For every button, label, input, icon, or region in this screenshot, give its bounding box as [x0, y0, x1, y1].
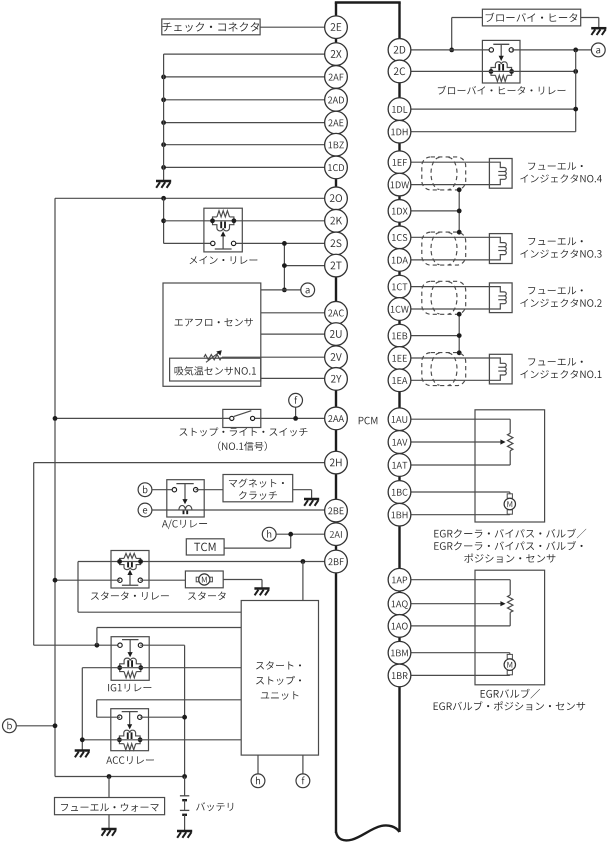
PCM pin 2AE: [325, 111, 348, 134]
wire pin 2H to IG1 bus: [34, 462, 336, 464]
node f (circled, unit): [296, 774, 310, 788]
PCM pin 2T: [325, 254, 348, 277]
ground G4 (starter): [254, 589, 269, 596]
junction 2BF / start-stop unit feed: [301, 559, 306, 564]
PCM module bottom break (wave): [336, 825, 400, 840]
wire IG1 relay coil to ground bus: [82, 667, 241, 669]
wire airflow sensor to pin 2U: [261, 333, 336, 335]
junction on bus at 1CD: [161, 165, 166, 170]
wire pin 2AE to ground bus: [164, 122, 336, 124]
wire check connector to pin 2E: [260, 26, 336, 28]
junction IG1 switch feed: [95, 643, 100, 648]
wire pins to fuel injector NO.4: [400, 162, 490, 184]
PCM pin 1CW: [388, 298, 411, 321]
junction ACC coil / ground bus: [80, 737, 85, 742]
check connector label box (チェック・コネクタ): [162, 19, 260, 35]
ground bus vertical (2X-1CD): [163, 54, 165, 181]
node b (circled, A/C): [138, 483, 152, 497]
junction coil / right bus: [573, 69, 578, 74]
junction shield bus1 / 1DX: [457, 209, 462, 214]
battery BAT1: [180, 777, 189, 832]
injector shield bus 2 (NO.2-1EB-NO.1): [458, 314, 460, 353]
junction shield bus2 bottom: [457, 350, 462, 355]
wire blow-by relay switch to node a: [512, 49, 592, 51]
PCM pin 2BE: [325, 499, 348, 522]
intake air temp sensor label box (吸気温センサNO.1): [170, 358, 261, 381]
PCM pin 2X: [325, 43, 348, 66]
wire node e through A/C relay coil to pin 2BE: [152, 509, 336, 511]
junction at node-a wire: [282, 288, 287, 293]
ground G3 (magnet clutch): [304, 499, 319, 506]
PCM pin 1EF: [388, 151, 411, 174]
airflow sensor box (エアフロ・センサ): [163, 283, 261, 386]
PCM pin 1BZ: [325, 133, 348, 156]
wire pins to fuel injector NO.1: [400, 358, 490, 380]
PCM pin 1BH: [388, 503, 411, 526]
wire pin 1DX to shield bus: [400, 210, 460, 212]
IG1 relay label: [108, 684, 151, 692]
blow-by heater relay (ブローバイ・ヒータ・リレー): [482, 40, 520, 83]
wire pins to fuel injector NO.2: [400, 287, 490, 309]
junction shield bus1 top: [457, 187, 462, 192]
magnet clutch box (マグネット・クラッチ): [223, 475, 293, 502]
junction node b / left bus: [53, 723, 58, 728]
junction fuel warmer tap: [107, 774, 112, 779]
junction left bus / starter relay: [53, 578, 58, 583]
inline connector (dashed) injector NO.2: [422, 281, 466, 314]
PCM module right rail: [398, 3, 400, 833]
wire pin 2O to left bus: [55, 197, 336, 199]
starter label: [188, 592, 226, 601]
wire A/C relay to magnet clutch: [196, 489, 223, 491]
node a (circled, right edge): [591, 43, 605, 57]
PCM pin 1DL: [388, 98, 411, 121]
junction blow-by heater / 2D wire: [449, 48, 454, 53]
stop light switch label line 2: [218, 441, 267, 451]
junction on bus at 2AF: [161, 75, 166, 80]
thermistor (intake air temp sensor NO.1): [204, 350, 222, 362]
wire pot wiper (EGR valve): [400, 601, 506, 606]
wire airflow sensor to pin 2AC: [261, 312, 336, 314]
fuel injector NO.2 (coil symbol): [489, 283, 512, 313]
node f (circled): [289, 393, 303, 407]
potentiometer resistor (EGR valve): [508, 595, 513, 612]
stop light switch label line 1: [179, 427, 307, 436]
injector shield bus 1 (1DW-1DX-NO.3): [458, 190, 460, 232]
EGR cooler bypass valve box: [475, 410, 545, 522]
wire pot bottom lead (EGR cooler bypass valve): [400, 451, 511, 465]
PCM module left rail: [335, 3, 337, 834]
PCM pin 1CT: [388, 275, 411, 298]
wire IG1 switch feed to start-stop unit: [97, 628, 241, 646]
EGR cooler bypass valve labels: [434, 529, 586, 563]
wire left bus to stop light switch to pin 2AA: [55, 417, 336, 419]
PCM pin 2S: [325, 232, 348, 255]
PCM pin 2BF: [325, 550, 348, 573]
junction 2O wire / relay bus: [161, 196, 166, 201]
fuel injector NO.1 label: [520, 358, 601, 378]
PCM pin 1CS: [388, 226, 411, 249]
wire pot top lead (EGR cooler bypass valve): [400, 419, 511, 433]
PCM pin 2C: [388, 60, 411, 83]
motor M (EGR valve): [504, 654, 515, 674]
stop light switch box: [223, 409, 261, 427]
starter relay label: [91, 592, 169, 601]
wire node b to A/C relay switch: [152, 489, 175, 491]
PCM pin 1BR: [388, 664, 411, 687]
node h (circled, TCM): [262, 527, 276, 541]
wire motor top lead (EGR cooler bypass valve): [400, 492, 510, 494]
wire magnet clutch to ground: [293, 490, 312, 499]
fuel warmer box (フューエル・ウォーマ): [55, 798, 165, 815]
PCM pin 1EA: [388, 369, 411, 392]
PCM label: [359, 417, 378, 425]
EGR valve box: [475, 570, 545, 685]
PCM pin 2AA: [325, 407, 348, 430]
junction at 2S wire: [282, 241, 287, 246]
ground G2 (blow-by heater): [591, 28, 606, 35]
wire pin 2C to blow-by relay coil: [400, 70, 576, 72]
inline connector (dashed) injector NO.4: [422, 157, 466, 190]
junction shield bus2 / 1EB: [457, 333, 462, 338]
inline connector (dashed) injector NO.3: [422, 232, 466, 265]
fuel injector NO.3 label: [520, 238, 601, 258]
wire pin 2BF through starter relay coil: [78, 561, 336, 563]
PCM module top edge: [335, 1, 401, 3]
wire main relay coil to pin 2K: [164, 220, 336, 222]
PCM pin 1DW: [388, 173, 411, 196]
wire TCM to node h junction: [224, 534, 291, 548]
junction shield bus1 bottom: [457, 230, 462, 235]
battery label (バッテリ): [196, 802, 233, 811]
wire left bus to starter relay switch: [55, 579, 120, 581]
wire battery line to fuel warmer: [108, 777, 110, 798]
blow-by relay label: [438, 86, 566, 95]
PCM pin 1AO: [388, 615, 411, 638]
common vertical IG1/ACC to battery line: [184, 645, 186, 776]
PCM pin 1DH: [388, 120, 411, 143]
ground G1 (signal ground bus): [156, 181, 171, 188]
starter relay (スタータ・リレー): [111, 551, 149, 589]
junction on bus at 2AE: [161, 120, 166, 125]
PCM pin 1DA: [388, 249, 411, 272]
ground G6 (fuel warmer): [101, 829, 116, 836]
junction 1DL / right bus: [573, 107, 578, 112]
PCM pin 2AD: [325, 88, 348, 111]
junction left bus / stop light switch wire: [53, 416, 58, 421]
PCM pin 1CD: [325, 156, 348, 179]
start-stop unit box (スタート・ストップ・ユニット): [241, 601, 318, 756]
EGR valve labels: [434, 689, 586, 711]
starter motor box (スタータ): [185, 571, 223, 588]
fuel injector NO.2 label: [520, 287, 601, 307]
left supply bus vertical x=55: [54, 198, 56, 776]
wire ACC relay coil to ground bus: [82, 739, 241, 741]
PCM pin 1AU: [388, 408, 411, 431]
wire starter motor to ground: [223, 580, 262, 589]
PCM pin 2E: [325, 16, 348, 39]
wire pot top lead (EGR valve): [400, 580, 511, 595]
wire intake temp sensor to pin 2Y: [261, 377, 336, 379]
PCM pin 2H: [325, 451, 348, 474]
wire pin 1BZ to ground bus: [164, 144, 336, 146]
PCM pin 1DX: [388, 200, 411, 223]
junction at 2T wire: [282, 263, 287, 268]
fuel injector NO.4 label: [520, 162, 602, 182]
main relay (メイン・リレー): [204, 208, 242, 252]
bus 2S-2T-node a vertical: [283, 243, 285, 290]
PCM pin 1AV: [388, 431, 411, 454]
PCM pin 2AI: [325, 523, 348, 546]
wire pin 2X to ground bus: [164, 53, 336, 55]
wire 2BF branch down to start-stop unit top: [302, 562, 304, 601]
junction ACC switch / common vertical: [182, 715, 187, 720]
PCM pin 1BM: [388, 641, 411, 664]
wire IG1 relay switch to common vertical: [140, 644, 184, 646]
wire pin 1DH to right bus: [400, 131, 576, 133]
wire pin 1CD to ground bus: [164, 166, 336, 168]
wire pin 2AD to ground bus: [164, 99, 336, 101]
PCM pin 1AP: [388, 568, 411, 591]
potentiometer resistor (EGR cooler bypass valve): [508, 433, 513, 450]
battery supply line: [55, 776, 185, 778]
wire pin 1DL to right bus: [400, 108, 576, 110]
PCM pin 2Y: [325, 368, 348, 391]
wire starter relay to starter motor: [140, 579, 185, 581]
IG1 bus vertical x=33.7: [33, 463, 35, 646]
main relay feed bus x=163.6: [163, 198, 165, 243]
wire IG1 bus to IG1 relay switch: [34, 644, 120, 646]
wire airflow sensor to node a: [261, 289, 301, 291]
wire pin 2D to blow-by relay switch: [400, 49, 492, 51]
node e (circled): [138, 503, 152, 517]
wire blow-by heater to 2D wire: [452, 18, 483, 50]
wire start-stop unit to node h (bottom left): [257, 755, 259, 774]
inline connector (dashed) injector NO.1: [422, 353, 466, 386]
wire fuel warmer to ground: [108, 815, 110, 829]
node f vertical at 2AA wire: [295, 407, 297, 419]
node a (circled): [301, 283, 315, 297]
wire motor top lead (EGR valve): [400, 653, 510, 655]
right bus vertical x=575.7: [575, 50, 577, 132]
wire thermistor to pin 2V: [222, 356, 336, 358]
wire motor bottom lead (EGR cooler bypass valve): [400, 513, 510, 516]
PCM pin 2U: [325, 323, 348, 346]
wire pins to fuel injector NO.3: [400, 237, 490, 260]
junction battery tap: [182, 774, 187, 779]
PCM pin 1AQ: [388, 592, 411, 615]
wire node b to left bus: [16, 725, 55, 727]
A/C relay (A/Cリレー): [167, 480, 204, 517]
wire ACC relay switch to common vertical: [140, 716, 184, 718]
ground bus vertical x=82.3: [81, 668, 83, 751]
wire pot bottom lead (EGR valve): [400, 612, 511, 626]
PCM pin 1BC: [388, 481, 411, 504]
ground G5 (IG1/ACC relay coils): [75, 751, 90, 758]
stop light switch contacts: [230, 416, 255, 420]
junction main relay coil feed: [161, 218, 166, 223]
wire starter relay coil to start-stop unit (left loop): [78, 562, 241, 613]
main relay label: [190, 256, 258, 264]
wire pot wiper (EGR cooler bypass valve): [400, 439, 506, 444]
junction on bus at 2AD: [161, 97, 166, 102]
wire main relay switch to pin 2S: [164, 242, 336, 244]
PCM pin 1EB: [388, 324, 411, 347]
ground G7 (battery): [177, 831, 192, 838]
wire ACC switch feed to start-stop unit: [97, 700, 242, 717]
junction on bus at 1BZ: [161, 142, 166, 147]
wire pin 2AF to ground bus: [164, 76, 336, 78]
PCM pin 2D: [388, 39, 411, 62]
fuel injector NO.4 (coil symbol): [489, 159, 512, 189]
airflow sensor label: [175, 318, 253, 326]
PCM pin 1AT: [388, 454, 411, 477]
IG1 relay (IG1リレー): [111, 637, 149, 681]
junction shield bus2 top: [457, 312, 462, 317]
junction TCM branch / 2AI wire: [288, 532, 293, 537]
node h (circled, unit): [251, 774, 265, 788]
fuel injector NO.3 (coil symbol): [489, 234, 512, 264]
stop light switch blade: [234, 411, 251, 417]
PCM pin 2O: [325, 187, 348, 210]
PCM pin 2AC: [325, 301, 348, 324]
junction node f / 2AA wire: [293, 416, 298, 421]
wire pin 2T to bus: [284, 265, 336, 267]
PCM pin 2V: [325, 346, 348, 369]
PCM pin 1EE: [388, 347, 411, 370]
wire start-stop unit to node f (bottom right): [302, 755, 304, 774]
motor M (EGR cooler bypass valve): [504, 494, 515, 514]
node b (circled, left edge): [2, 719, 16, 733]
wire pin 1EB to shield bus: [400, 335, 460, 337]
fuel injector NO.1 (coil symbol): [489, 354, 512, 384]
blow-by heater box (ブローバイ・ヒータ): [482, 9, 580, 26]
PCM pin 2K: [325, 209, 348, 232]
TCM box: [186, 539, 224, 555]
ACC relay (ACCリレー): [111, 709, 149, 751]
wire blow-by heater to ground: [581, 18, 599, 29]
wire motor bottom lead (EGR valve): [400, 674, 510, 677]
ACC relay label: [106, 756, 154, 764]
wire node h to pin 2AI: [276, 533, 336, 535]
A/C relay label: [162, 519, 207, 529]
junction node-a wire / right bus: [573, 48, 578, 53]
PCM pin 2AF: [325, 66, 348, 89]
